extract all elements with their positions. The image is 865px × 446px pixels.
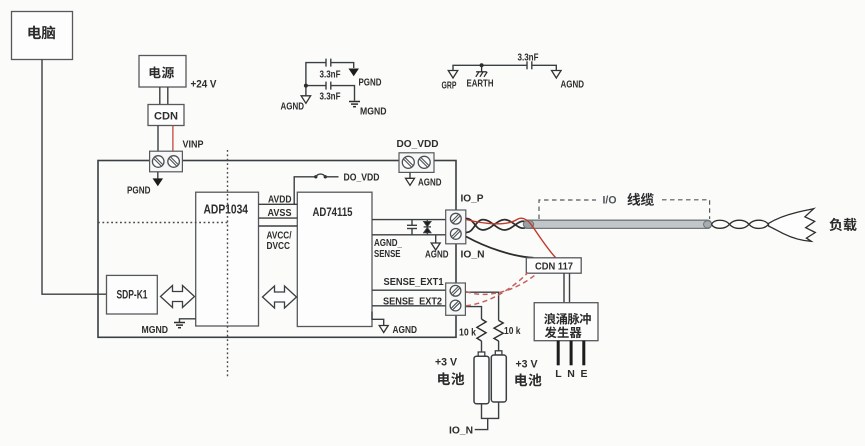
svg-text:3.3nF: 3.3nF: [320, 92, 341, 103]
power supply box 电源: [139, 56, 186, 88]
CDN box: [148, 105, 184, 126]
ground AGND open (right): [552, 71, 562, 79]
ground AGND below TVS: [435, 235, 437, 243]
svg-text:SENSE_EXT2: SENSE_EXT2: [383, 295, 442, 307]
svg-text:IO_N: IO_N: [449, 425, 473, 437]
wire AVDD: [259, 203, 298, 205]
battery BT1 +3V: [474, 352, 489, 404]
wire pair CDN117 to surge generator: [564, 273, 570, 303]
wire IO_N / AGND_SENSE: [372, 234, 446, 236]
svg-text:AGND: AGND: [561, 79, 585, 90]
red dashed coupling CDN117 to SENSE_EXT2: [466, 273, 528, 306]
terminal block SENSE: [446, 283, 466, 315]
svg-text:AGND: AGND: [418, 178, 442, 189]
svg-text:I/O: I/O: [603, 195, 617, 207]
ground AGND below DO_VDD block: [409, 172, 411, 178]
wire from computer to SDP-K1: [42, 60, 107, 295]
svg-text:3.3nF: 3.3nF: [320, 70, 341, 81]
svg-text:10 k: 10 k: [459, 327, 476, 339]
surge generator box 浪涌脉冲发生器: [534, 303, 598, 341]
CDN 117 box: [526, 258, 581, 273]
computer box 电脑: [12, 12, 73, 60]
svg-text:AVDD: AVDD: [268, 195, 292, 206]
svg-text:AGND: AGND: [393, 325, 418, 336]
wire SENSE_EXT2 to R1: [466, 307, 482, 320]
svg-text:IO_P: IO_P: [461, 193, 484, 205]
board SDP-K1: [107, 275, 158, 314]
svg-text:CDN: CDN: [154, 111, 178, 123]
svg-text:N: N: [567, 368, 575, 380]
svg-text:IO_N: IO_N: [461, 249, 485, 261]
svg-text:SENSE: SENSE: [374, 249, 401, 260]
svg-text:GRP: GRP: [442, 81, 457, 92]
TVS diode D1: [424, 220, 431, 235]
capacitor C4 between IO wires: [407, 220, 417, 235]
ground MGND bottom: [180, 319, 196, 323]
svg-text:+24 V: +24 V: [191, 78, 218, 90]
wire SENSE_EXT2: [372, 305, 446, 307]
svg-text:AGND_: AGND_: [374, 238, 402, 249]
load frayed shape 负载: [769, 209, 816, 242]
wire red curve IO_P to CDN117: [466, 218, 556, 257]
svg-text:PGND: PGND: [359, 78, 382, 89]
node junction dot EARTH: [480, 63, 484, 67]
red dashed coupling CDN117 to SENSE_EXT1: [466, 274, 537, 295]
svg-text:+3 V: +3 V: [516, 359, 539, 371]
svg-text:AVSS: AVSS: [268, 208, 292, 219]
wire R1 to battery 1: [481, 341, 483, 352]
svg-text:EARTH: EARTH: [467, 79, 494, 90]
capacitor C1 3.3nF wire top: [306, 59, 354, 96]
svg-text:SDP-K1: SDP-K1: [117, 290, 148, 302]
svg-text:AGND: AGND: [281, 102, 305, 113]
twisted pair at load end: [712, 220, 769, 228]
svg-text:L: L: [555, 368, 562, 380]
wire GRP-EARTH-cap-AGND: [453, 61, 556, 70]
label 线缆: [627, 193, 654, 206]
IC AD74115: [297, 192, 372, 326]
twisted pair wire red (IO_P): [466, 218, 530, 230]
terminal block VINP: [150, 151, 183, 172]
L N E pins of surge generator: [558, 341, 584, 366]
svg-text:VINP: VINP: [183, 139, 204, 151]
svg-text:MGND: MGND: [142, 325, 169, 336]
wire SENSE_EXT1 to R2: [466, 292, 499, 320]
cable gray I/O: [523, 220, 711, 228]
svg-text:DO_VDD: DO_VDD: [397, 138, 439, 150]
wire AVSS: [259, 217, 298, 219]
svg-text:ADP1034: ADP1034: [204, 203, 249, 217]
wire AVCC/DVCC: [259, 225, 298, 227]
svg-text:+3 V: +3 V: [435, 357, 458, 369]
wire black curve IO_N to CDN117: [466, 237, 534, 258]
svg-text:3.3nF: 3.3nF: [518, 53, 539, 64]
wire SENSE_EXT1: [372, 289, 446, 291]
ground PGND arrow below VINP: [157, 172, 159, 179]
ground PGND arrow (cap): [348, 69, 359, 77]
svg-text:DVCC: DVCC: [267, 241, 291, 252]
svg-text:10 k: 10 k: [504, 325, 521, 337]
isolation barrier dotted horizontal: [98, 222, 228, 224]
label 负载: [829, 218, 856, 231]
ground GRP open triangle: [448, 71, 458, 79]
bus arrow SDP-K1 to ADP1034: [161, 286, 195, 308]
battery BT2 +3V: [491, 351, 506, 402]
resistor R2 10k: [494, 320, 503, 341]
svg-text:AGND: AGND: [425, 250, 449, 261]
svg-text:E: E: [581, 368, 588, 380]
ground MGND symbol (cap): [349, 102, 360, 107]
twisted pair wire black (IO_N): [466, 220, 530, 233]
wire CDN to VINP red: [172, 126, 174, 153]
bus arrow ADP1034 to AD74115: [263, 286, 297, 308]
wire DO_VDD tap: [294, 177, 315, 205]
capacitor C2 3.3nF wire bottom: [306, 82, 355, 101]
wire battery bottoms to IO_N: [482, 402, 499, 418]
ground EARTH symbol: [476, 65, 487, 77]
svg-text:MGND: MGND: [360, 107, 387, 118]
svg-text:SENSE_EXT1: SENSE_EXT1: [384, 276, 444, 288]
resistor R1 10k: [477, 319, 486, 341]
dashed bracket I/O cable: [539, 200, 710, 219]
IC ADP1034: [196, 192, 259, 326]
wire CDN to VINP black: [157, 126, 159, 153]
switch S1 (bead): [314, 175, 317, 178]
svg-text:AD74115: AD74115: [313, 205, 353, 219]
ground AGND below AD74115: [372, 312, 384, 326]
node junction dot: [304, 84, 308, 88]
main enclosure box: [98, 161, 456, 338]
svg-text:DO_VDD: DO_VDD: [344, 171, 380, 183]
svg-text:PGND: PGND: [127, 186, 151, 197]
ground AGND open (cap): [301, 96, 311, 104]
svg-text:CDN 117: CDN 117: [535, 260, 573, 272]
wire pair power to CDN: [160, 87, 168, 105]
wire IO_P: [372, 219, 446, 221]
wire R2 to battery 2: [498, 341, 500, 351]
isolation barrier dotted vertical: [227, 150, 229, 377]
